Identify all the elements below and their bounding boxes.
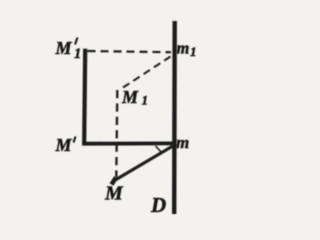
wire dashed M'1 to m1 (88, 51, 172, 52)
wire left vertical M'1 to M' (84, 49, 85, 143)
svg-text:1: 1 (190, 44, 197, 59)
wire dashed vertical from M1 (116, 90, 117, 177)
svg-text:m: m (176, 133, 189, 152)
wire dashed m1 to M1 (122, 57, 171, 89)
svg-text:M: M (55, 135, 73, 155)
svg-text:M: M (104, 183, 124, 205)
svg-text:M: M (55, 38, 73, 58)
wire line D (vertical axis) (172, 21, 177, 214)
svg-text:1: 1 (142, 93, 149, 108)
wire thick M to m (114, 144, 177, 181)
svg-text:m: m (177, 39, 190, 58)
wire horizontal M' to m (82, 141, 177, 145)
angle tick at m (156, 146, 162, 152)
svg-text:D: D (150, 193, 166, 217)
svg-text:M: M (121, 87, 139, 107)
svg-text:1: 1 (74, 46, 81, 62)
